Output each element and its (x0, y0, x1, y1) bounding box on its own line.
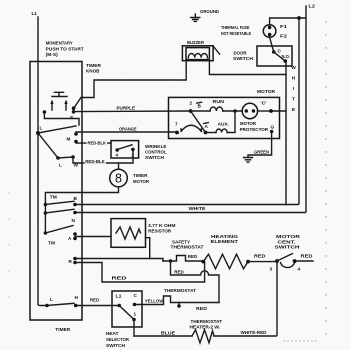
svg-text:MOTOR: MOTOR (240, 121, 257, 126)
svg-text:CENT.: CENT. (278, 239, 296, 244)
svg-text:G: G (271, 125, 275, 130)
svg-text:PUSH TO START: PUSH TO START (46, 46, 84, 51)
svg-text:M: M (67, 137, 71, 142)
svg-text:TM: TM (48, 241, 55, 246)
svg-text:4: 4 (298, 267, 301, 272)
svg-text:TIMER: TIMER (55, 327, 71, 332)
svg-text:SWITCH: SWITCH (233, 56, 254, 61)
svg-text:THERMOSTAT: THERMOSTAT (191, 319, 223, 324)
svg-text:NOT RESETABLE: NOT RESETABLE (221, 31, 251, 36)
svg-text:TIMER: TIMER (133, 173, 148, 178)
svg-text:MOTOR: MOTOR (257, 89, 276, 94)
svg-text:2: 2 (190, 101, 193, 106)
svg-text:RED-BLK: RED-BLK (85, 159, 105, 164)
svg-text:MOTOR: MOTOR (276, 234, 301, 239)
svg-text:DOOR: DOOR (234, 50, 248, 55)
svg-text:8: 8 (115, 172, 122, 186)
svg-text:PROTECTOR: PROTECTOR (240, 127, 269, 132)
svg-text:RED: RED (112, 275, 128, 280)
svg-text:RED: RED (254, 254, 266, 259)
svg-text:3: 3 (270, 267, 273, 272)
svg-text:SELECTOR: SELECTOR (106, 337, 130, 342)
svg-text:THERMAL FUSE: THERMAL FUSE (221, 25, 250, 30)
svg-text:CONTROL: CONTROL (145, 150, 167, 155)
svg-text:HEATER-2 W.: HEATER-2 W. (190, 325, 221, 330)
svg-text:L1: L1 (116, 294, 122, 299)
svg-text:HEAT: HEAT (106, 331, 119, 336)
svg-text:SWITCH: SWITCH (145, 155, 165, 160)
svg-text:KNOB: KNOB (86, 69, 100, 74)
svg-text:YELLOW: YELLOW (145, 298, 164, 303)
svg-text:(M-S): (M-S) (46, 52, 58, 57)
svg-text:SWITCH: SWITCH (275, 245, 301, 250)
svg-text:MOTOR: MOTOR (133, 179, 150, 184)
svg-text:MOMENTARY: MOMENTARY (46, 41, 74, 46)
svg-text:BUZZER: BUZZER (187, 40, 205, 45)
svg-text:BLUE: BLUE (161, 330, 175, 335)
svg-text:WHITE: WHITE (189, 206, 206, 211)
svg-text:L1: L1 (32, 11, 38, 16)
svg-text:WHITE-RED: WHITE-RED (241, 330, 268, 335)
svg-text:RED: RED (188, 254, 198, 259)
svg-text:L: L (50, 297, 53, 302)
svg-text:ORANGE: ORANGE (119, 127, 137, 132)
svg-text:7: 7 (175, 121, 178, 126)
svg-text:THERMOSTAT: THERMOSTAT (164, 288, 196, 293)
svg-text:TM: TM (50, 195, 57, 200)
svg-text:GROUND: GROUND (200, 9, 220, 14)
svg-text:W: W (291, 65, 296, 71)
svg-text:RUN: RUN (213, 99, 225, 104)
svg-text:RESISTOR: RESISTOR (148, 228, 172, 233)
svg-text:F2: F2 (280, 34, 287, 39)
svg-text:H: H (292, 76, 296, 82)
svg-text:S: S (70, 115, 73, 120)
svg-text:T: T (292, 97, 295, 103)
svg-text:RED: RED (196, 306, 208, 311)
svg-text:ELEMENT: ELEMENT (211, 239, 239, 244)
svg-text:N.O.: N.O. (282, 54, 291, 59)
svg-text:'C': 'C' (261, 101, 267, 106)
svg-text:THERMOSTAT: THERMOSTAT (171, 245, 204, 250)
svg-text:PURPLE: PURPLE (117, 105, 136, 110)
svg-text:L: L (59, 163, 62, 168)
svg-text:WRINKLE: WRINKLE (145, 144, 167, 149)
svg-text:GREEN: GREEN (254, 150, 270, 155)
svg-text:3.77 K OHM: 3.77 K OHM (148, 223, 176, 228)
svg-text:RED: RED (174, 270, 184, 275)
svg-text:F1: F1 (280, 24, 287, 29)
svg-text:RED-BLK: RED-BLK (88, 141, 107, 146)
svg-text:RED: RED (301, 253, 314, 258)
svg-text:W: W (74, 163, 79, 168)
svg-text:L: L (40, 126, 43, 131)
svg-text:TIMER: TIMER (86, 63, 102, 68)
svg-text:SWITCH: SWITCH (106, 343, 126, 348)
svg-text:AUX.: AUX. (218, 121, 230, 126)
svg-text:1: 1 (134, 312, 137, 317)
svg-text:RED: RED (90, 298, 100, 303)
svg-text:L2: L2 (309, 4, 316, 9)
